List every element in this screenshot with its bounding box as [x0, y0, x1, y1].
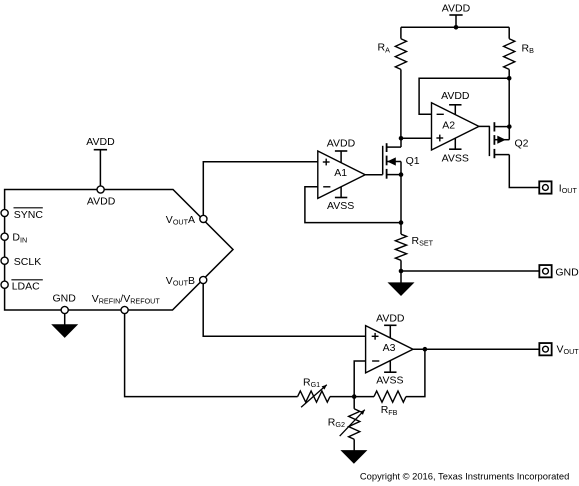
label RA — [378, 42, 391, 55]
transistor Q2 — [489, 122, 509, 158]
wire VOUTB to A3 + input — [203, 284, 365, 337]
wire node to A2 + input — [401, 137, 432, 139]
wire A2 output to Q2 gate — [479, 125, 490, 127]
label RG1 — [303, 376, 320, 389]
wire A2 feedback — [419, 78, 509, 114]
pin GND of chip — [61, 306, 68, 313]
label RB — [522, 42, 535, 55]
power symbol AVDD (chip) — [86, 136, 115, 186]
label DIN — [12, 232, 27, 245]
resistor RSET — [395, 234, 406, 260]
label VREFIN/VREFOUT — [92, 293, 161, 306]
svg-text:SYNC: SYNC — [14, 209, 44, 221]
label RSET — [412, 235, 434, 248]
pin SYNC — [1, 209, 8, 216]
wire RG1 to node — [330, 396, 354, 398]
pin SCLK — [1, 257, 8, 264]
svg-text:A2: A2 — [442, 120, 455, 132]
wire node to RG2 — [353, 397, 355, 409]
svg-text:AVDD: AVDD — [442, 2, 471, 14]
resistor RFB — [374, 391, 406, 402]
svg-text:A3: A3 — [383, 342, 396, 354]
svg-text:GND: GND — [53, 293, 77, 305]
op-amp A1 — [318, 151, 365, 198]
wire AVDD rail to RB — [508, 27, 510, 38]
resistor RA — [395, 39, 406, 70]
DAC U1 outline — [5, 190, 233, 311]
label AVDD inside chip — [87, 196, 116, 208]
ground symbol below chip — [52, 314, 77, 338]
wire RA to node Q1-drain — [400, 69, 402, 138]
wire node to A3 - input — [354, 361, 365, 397]
power AVDD of A1 — [327, 138, 356, 163]
svg-text:GND: GND — [555, 267, 579, 279]
svg-text:AVDD: AVDD — [376, 312, 405, 324]
op-amp A2 — [432, 103, 479, 150]
power AVSS of A3 — [376, 361, 403, 386]
wire VOUTA to A1 + input — [203, 162, 317, 216]
transistor Q1 — [383, 143, 401, 179]
resistor RG1 — [298, 385, 330, 408]
pin DIN — [1, 233, 8, 240]
svg-text:Q2: Q2 — [515, 138, 529, 150]
svg-text:LDAC: LDAC — [12, 281, 40, 293]
wire A3 output to RFB — [406, 349, 425, 396]
svg-text:AVDD: AVDD — [87, 196, 116, 208]
label SYNC — [14, 208, 44, 221]
junction AVDD rail — [454, 25, 459, 30]
svg-text:A1: A1 — [334, 167, 347, 179]
label Q2 — [515, 138, 529, 150]
pin LDAC — [1, 281, 8, 288]
power AVDD of A2 — [441, 90, 470, 115]
wire GND node to GND terminal — [401, 270, 539, 272]
resistor RG2 — [340, 409, 365, 440]
wire Q1 drain up to node — [400, 138, 402, 147]
junction Q1 source — [399, 172, 404, 177]
label Q1 — [406, 155, 420, 167]
wire RG2 to ground — [353, 439, 355, 450]
wire Q2 drain to IOUT — [509, 155, 539, 188]
label RG2 — [328, 417, 345, 430]
svg-text:AVDD: AVDD — [327, 138, 356, 150]
svg-text:SCLK: SCLK — [14, 256, 41, 268]
svg-text:AVDD: AVDD — [86, 136, 115, 148]
junction GND node — [399, 269, 404, 274]
pin VREFIN/VREFOUT — [121, 306, 128, 313]
label GND terminal — [555, 267, 579, 279]
wire AVDD rail to RA — [400, 27, 402, 38]
ground symbol below RSET — [389, 271, 414, 295]
wire A1 feedback — [305, 187, 401, 223]
wire RSET to GND node — [400, 260, 402, 271]
junction A3 output — [423, 347, 428, 352]
svg-text:Copyright © 2016, Texas Instru: Copyright © 2016, Texas Instruments Inco… — [360, 471, 569, 482]
power AVSS of A1 — [327, 187, 354, 213]
svg-text:AVSS: AVSS — [376, 374, 403, 386]
junction node Q1 drain — [399, 136, 404, 141]
resistor RB — [504, 39, 515, 70]
power symbol AVDD (top rail) — [442, 2, 471, 27]
junction inverting node — [352, 394, 357, 399]
terminal GND — [539, 265, 551, 277]
label VOUTA — [166, 214, 195, 227]
svg-text:AVSS: AVSS — [327, 200, 354, 212]
wire RFB to inverting node — [354, 396, 374, 398]
wire VREF to RG1 — [125, 314, 298, 397]
label SCLK — [14, 256, 41, 268]
svg-text:AVSS: AVSS — [442, 153, 469, 165]
ground symbol below RG2 — [342, 451, 367, 463]
junction feedback tap — [399, 220, 404, 225]
power AVDD of A3 — [376, 312, 405, 338]
label RFB — [381, 404, 398, 417]
svg-text:Q1: Q1 — [406, 155, 420, 167]
label LDAC — [11, 280, 42, 293]
op-amp A3 — [366, 326, 413, 373]
label GND of chip — [53, 293, 77, 305]
wire A3 output to VOUT — [413, 348, 539, 350]
label VOUTB — [166, 275, 195, 288]
pin VOUTA — [200, 215, 207, 222]
junction RB/A2 feedback — [507, 76, 512, 81]
terminal VOUT — [539, 343, 551, 355]
wire RB to Q2 source node — [508, 69, 510, 126]
terminal IOUT — [539, 181, 551, 193]
pin VOUTB — [200, 276, 207, 283]
pin AVDD of chip — [97, 186, 104, 193]
power AVSS of A2 — [442, 138, 469, 164]
svg-text:AVDD: AVDD — [441, 90, 470, 102]
label IOUT — [559, 182, 578, 195]
junction Q2 source node — [507, 124, 512, 129]
copyright note — [360, 471, 569, 482]
wire AVDD rail — [401, 26, 509, 28]
wire A1 output to Q1 gate — [365, 174, 383, 176]
wire Q1 source down — [400, 175, 402, 235]
label VOUT — [557, 343, 579, 356]
